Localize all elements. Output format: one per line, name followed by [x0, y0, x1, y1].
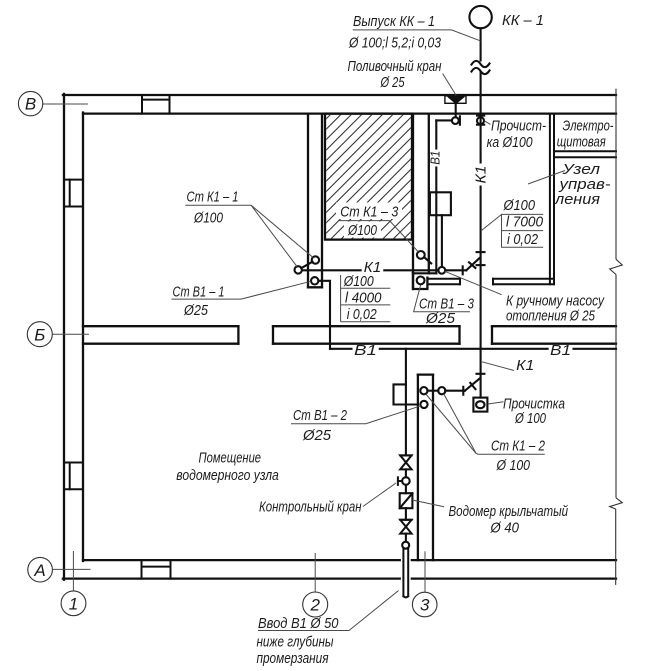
tick on K1 main: [462, 266, 464, 274]
axis circle A: [28, 557, 53, 582]
svg-text:К1: К1: [474, 166, 490, 184]
svg-text:КК – 1: КК – 1: [502, 12, 544, 29]
leader St V1-3: [414, 285, 470, 312]
wall left inner: [82, 113, 84, 562]
white patch behind St K1-3 label: [336, 203, 402, 220]
gate valve 2: [405, 508, 407, 520]
hatch pattern of duct: [205, 113, 530, 240]
svg-text:Ø 100: Ø 100: [496, 457, 531, 474]
leader St V1-1: [171, 281, 311, 299]
niche mark left wall lower: [64, 463, 83, 490]
riser St V1-1 circle: [311, 277, 318, 284]
svg-text:ления: ления: [554, 191, 600, 208]
V1 elbow into box: [413, 272, 436, 274]
pipe break squiggles: [472, 61, 490, 67]
axis line 2: [314, 553, 316, 592]
leader polivochny kran: [443, 74, 457, 96]
leader St K1-2: [426, 394, 545, 454]
svg-text:промерзания: промерзания: [257, 650, 329, 667]
svg-text:Б: Б: [34, 325, 45, 344]
svg-text:щитовая: щитовая: [557, 134, 606, 151]
svg-text:Ст К1 – 2: Ст К1 – 2: [491, 438, 546, 455]
svg-text:3: 3: [420, 596, 430, 615]
svg-text:Ø25: Ø25: [425, 310, 456, 327]
svg-text:Ø100: Ø100: [503, 197, 536, 214]
shaft hatched duct: [325, 114, 412, 240]
svg-text:А: А: [33, 561, 45, 580]
lower right room wall: [418, 375, 433, 560]
svg-text:Ст К1 – 3: Ст К1 – 3: [340, 204, 399, 221]
axis line 3: [424, 551, 426, 592]
svg-text:Электро-: Электро-: [563, 118, 614, 135]
control room left wall: [550, 114, 554, 285]
St V1-2 branch pipe: [405, 349, 407, 456]
K1 horizontal main upper: [303, 269, 361, 271]
leader St K1-1: [185, 205, 297, 266]
shaft right wall: [413, 114, 429, 289]
svg-text:Ø100: Ø100: [343, 273, 374, 290]
leader K1 label: [482, 362, 514, 371]
svg-text:Ø100: Ø100: [347, 222, 377, 239]
svg-text:Водомер крыльчатый: Водомер крыльчатый: [449, 503, 569, 520]
hose bib symbol on top wall: [445, 96, 466, 117]
axis circle 2: [303, 592, 328, 617]
wall bottom inner: [83, 559, 401, 561]
water meter: [405, 485, 407, 493]
svg-text:Ст К1 – 1: Ст К1 – 1: [187, 189, 239, 206]
45 deg jog lower: [465, 378, 480, 390]
cleanout box: [473, 398, 487, 412]
wall left outer: [63, 94, 65, 580]
wall bottom outer: [63, 577, 401, 579]
axis line V: [43, 103, 88, 105]
partition wall y279 segment 2: [493, 279, 554, 285]
svg-text:Ø 25: Ø 25: [380, 75, 405, 91]
KK-1 manhole circle: [469, 6, 491, 28]
riser K1 vertical: [480, 73, 482, 163]
svg-text:i 0,02: i 0,02: [507, 231, 539, 248]
axis circle V: [18, 91, 42, 115]
riser box St V1-3: [413, 273, 427, 289]
svg-text:l 7000: l 7000: [506, 213, 544, 230]
circles St K1-2: [420, 387, 427, 394]
wall top inner: [83, 112, 616, 114]
leaders and underlines: [171, 30, 565, 631]
electro room partition: [554, 151, 616, 157]
leader kontrolny kran: [363, 483, 396, 507]
svg-text:Ø 100: Ø 100: [514, 410, 546, 427]
hose bib connection circle: [452, 117, 459, 124]
niche mark left wall upper: [64, 180, 83, 207]
axis line A: [53, 568, 91, 570]
45 deg jog to riser: [466, 258, 479, 270]
partition wall y279 segment 1: [429, 279, 460, 285]
window mark bottom wall: [142, 560, 171, 579]
svg-text:водомерного узла: водомерного узла: [176, 467, 278, 484]
cleanout circle on K1: [477, 117, 484, 124]
control tap: [398, 480, 402, 482]
svg-text:Поливочный кран: Поливочный кран: [348, 59, 442, 75]
leader cleanout top: [484, 121, 490, 125]
riser St K1-1 circles: [312, 256, 319, 263]
wall top outer: [63, 94, 616, 96]
St V1-2 recess bracket: [394, 384, 418, 404]
leader cleanout bottom: [488, 402, 504, 404]
riser circle St V1-3: [417, 277, 425, 285]
svg-text:Ст В1 – 2: Ст В1 – 2: [293, 407, 347, 424]
circle St V1-2: [420, 401, 427, 408]
svg-text:К1: К1: [516, 357, 534, 374]
svg-text:Ø100: Ø100: [193, 210, 223, 227]
junction circle V1/K1: [438, 267, 445, 274]
leader vvod: [258, 591, 399, 631]
svg-text:2: 2: [309, 596, 320, 615]
svg-text:Ввод В1 Ø 50: Ввод В1 Ø 50: [258, 615, 339, 632]
white patch behind d100 label: [344, 222, 381, 238]
table K1 4000: [340, 275, 342, 322]
leader uzel: [528, 171, 565, 185]
svg-text:Ø 40: Ø 40: [490, 520, 520, 537]
leader St V1-2: [291, 406, 421, 424]
svg-text:В: В: [25, 95, 36, 114]
svg-text:В1: В1: [354, 342, 377, 359]
right section boundary with breaks: [610, 89, 623, 585]
svg-text:отопления Ø 25: отопления Ø 25: [506, 308, 595, 325]
KK-1 outfall pipe: [480, 28, 482, 60]
gate valve 1: [400, 455, 411, 469]
svg-text:В1: В1: [550, 342, 571, 359]
window mark top wall: [142, 95, 170, 114]
middle wall axis B: segment right: [492, 326, 616, 344]
svg-text:Выпуск КК – 1: Выпуск КК – 1: [353, 14, 435, 30]
axis line B: [52, 333, 89, 335]
svg-text:Ø25: Ø25: [183, 302, 208, 319]
axis circle B: [27, 322, 52, 347]
middle wall axis B: segment center: [273, 326, 460, 344]
svg-text:Ø 100;l 5,2;i 0,03: Ø 100;l 5,2;i 0,03: [348, 35, 441, 51]
svg-text:i 0,02: i 0,02: [347, 306, 378, 323]
svg-text:Ст В1 – 1: Ст В1 – 1: [173, 284, 225, 301]
connection ticks on K1 riser: [477, 251, 485, 253]
leader St K1-3: [339, 221, 418, 252]
leader Vypusk KK-1: [353, 30, 481, 41]
tick on lower K1: [462, 387, 464, 395]
axis circle 1: [61, 591, 86, 616]
svg-text:В1: В1: [428, 151, 443, 165]
entry elbow circle: [402, 542, 409, 549]
svg-text:ка Ø100: ка Ø100: [487, 134, 534, 151]
middle wall axis B: segment left: [83, 326, 238, 344]
riser St K1-3 circle: [417, 251, 425, 259]
V1 stub to hose bib: [436, 119, 452, 121]
V1 pipe from St V1-1: [318, 281, 330, 349]
shaft left wall: [308, 114, 322, 288]
service entry sleeve: [401, 558, 411, 581]
svg-text:Контрольный кран: Контрольный кран: [259, 499, 362, 516]
svg-text:Ø25: Ø25: [302, 427, 332, 444]
svg-text:ниже глубины: ниже глубины: [257, 634, 334, 651]
axis circle 3: [412, 592, 437, 617]
V1 riser vertical: [435, 120, 437, 148]
svg-text:Помещение: Помещение: [199, 450, 262, 467]
axis line 1: [72, 551, 74, 591]
K1 horizontal lower: [427, 390, 438, 392]
svg-text:Прочист-: Прочист-: [491, 118, 546, 135]
V1 horizontal main: [330, 348, 352, 350]
table K1 7000: [502, 214, 544, 247]
leader vodomer: [412, 500, 444, 507]
leader k nasosu: [445, 271, 502, 295]
svg-text:l 4000: l 4000: [345, 290, 382, 307]
valve box on V1 riser: [430, 192, 451, 215]
svg-text:1: 1: [69, 595, 78, 614]
